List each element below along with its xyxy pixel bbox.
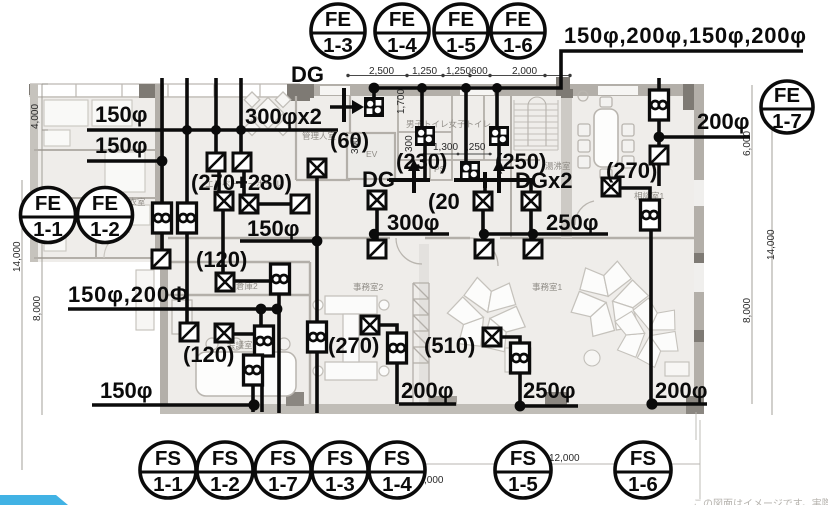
fan unit x397 <box>388 333 407 363</box>
svg-text:1-4: 1-4 <box>382 473 412 496</box>
svg-text:200φ: 200φ <box>401 378 453 403</box>
arrowhead DG left riser <box>408 159 420 171</box>
junction dot 250φ bottom x520 <box>515 401 526 412</box>
wire duct line A 150φ upper <box>87 128 338 132</box>
svg-text:FE: FE <box>389 8 415 31</box>
damper box x484 <box>475 240 493 258</box>
small dims near toilets <box>424 153 492 155</box>
bold labels <box>68 23 806 403</box>
svg-text:1-7: 1-7 <box>772 110 802 133</box>
silencer box x499 <box>489 126 509 146</box>
svg-text:1-1: 1-1 <box>33 218 63 241</box>
svg-text:150φ,200Φ: 150φ,200Φ <box>68 282 188 307</box>
tag circle FE 1-6 <box>491 4 545 58</box>
svg-text:1-6: 1-6 <box>628 473 658 496</box>
wire arrow duct feed <box>330 105 354 109</box>
dimension top row <box>348 75 570 77</box>
svg-text:200φ: 200φ <box>655 378 707 403</box>
junction dot line A x216 <box>211 125 221 135</box>
svg-text:,250: ,250 <box>466 142 486 153</box>
door arcs <box>575 201 594 225</box>
grille box x249 <box>240 195 258 213</box>
svg-text:FE: FE <box>325 8 351 31</box>
meeting room top right table <box>594 109 618 167</box>
wire 300φ leader <box>374 232 449 236</box>
svg-text:(230): (230) <box>396 149 447 174</box>
svg-text:FS: FS <box>155 447 181 470</box>
left meeting room table <box>196 352 296 396</box>
wire riser column x531 <box>529 182 533 240</box>
office1 pinwheel desks <box>436 255 697 382</box>
svg-text:150φ: 150φ <box>247 216 299 241</box>
svg-text:FE: FE <box>448 8 474 31</box>
svg-text:150φ,200φ,150φ,200φ: 150φ,200φ,150φ,200φ <box>564 23 806 48</box>
svg-text:FS: FS <box>212 447 238 470</box>
wire 200φ bottom-centre leader <box>399 402 456 406</box>
svg-text:1-5: 1-5 <box>446 34 476 57</box>
tag circle FE 1-1 <box>21 188 76 243</box>
svg-text:FE: FE <box>505 8 531 31</box>
damper box x377 <box>368 240 386 258</box>
svg-text:1-2: 1-2 <box>210 473 240 496</box>
wire riser column x485 <box>483 180 485 240</box>
junction dot 150φ200Φ x277 <box>272 304 283 315</box>
tag circle FE 1-3 <box>311 4 365 58</box>
junction dot top wire x374 <box>369 83 380 94</box>
DG cross left <box>389 168 430 193</box>
grille box x224 upper <box>215 192 233 210</box>
arrowhead DG right riser <box>493 159 505 171</box>
svg-text:FE: FE <box>774 84 800 107</box>
svg-text:FS: FS <box>384 447 410 470</box>
wing interior walls <box>34 150 160 258</box>
grille box x370 office2 <box>361 316 379 334</box>
damper box column x216 <box>207 153 225 171</box>
annotation layer <box>68 51 803 413</box>
svg-text:(510): (510) <box>424 333 475 358</box>
corridor bottom wall <box>168 238 704 404</box>
wire 200φ right leader <box>659 135 750 139</box>
svg-text:1-1: 1-1 <box>153 473 183 496</box>
silencer box x374 <box>364 97 384 117</box>
grille box x531 <box>522 192 540 210</box>
interior wall manager room <box>296 96 350 180</box>
wire riser column x262 <box>261 309 262 412</box>
blue corner banner <box>0 495 68 505</box>
junction dot line B x162 <box>157 156 168 167</box>
tag circle FS 1-3 <box>312 442 368 498</box>
svg-text:4,000: 4,000 <box>30 104 41 129</box>
damper box column x241 <box>233 153 251 171</box>
svg-text:FS: FS <box>270 447 296 470</box>
svg-text:150φ: 150φ <box>95 102 147 127</box>
wire 250φ bottom leader <box>520 404 578 408</box>
svg-text:1-6: 1-6 <box>503 34 533 57</box>
svg-text:200φ: 200φ <box>697 109 749 134</box>
fan unit column x162 <box>153 203 172 233</box>
svg-text:250φ: 250φ <box>546 210 598 235</box>
svg-text:(270): (270) <box>606 158 657 183</box>
svg-text:1-7: 1-7 <box>268 473 298 496</box>
wire riser column x253 <box>251 384 255 412</box>
svg-text:FS: FS <box>630 447 656 470</box>
fan unit x253 <box>244 355 263 385</box>
grille box x611 <box>602 178 620 196</box>
wire riser column x466 <box>464 88 468 162</box>
wire 150φ bottom leader <box>92 403 255 407</box>
dimension lines left <box>22 84 48 470</box>
junction dot 200φ bottom x652 <box>646 398 657 409</box>
junction dot line A x187 <box>182 125 192 135</box>
wire 150φ,200Φ leader <box>68 307 278 311</box>
damper box column x162 <box>152 250 170 268</box>
svg-text:,000: ,000 <box>424 475 444 486</box>
damper box x533 <box>524 240 542 258</box>
junction dot top wire x422 <box>417 83 427 93</box>
wire riser column x241 <box>241 78 244 196</box>
wire riser column x317 <box>315 177 319 413</box>
svg-text:1-2: 1-2 <box>90 218 120 241</box>
fan unit x280 <box>271 264 290 294</box>
fan unit x317 <box>308 322 327 352</box>
svg-text:FS: FS <box>510 447 536 470</box>
svg-text:150φ: 150φ <box>95 133 147 158</box>
grille box x377 <box>368 191 386 209</box>
wire branch xbox to fan meeting room <box>233 332 254 336</box>
svg-text:12,000: 12,000 <box>549 453 580 464</box>
tag circle FS 1-5 <box>495 442 551 498</box>
silencer box x425 <box>415 126 435 146</box>
office2 desks <box>313 296 389 380</box>
tag circle FS 1-1 <box>140 442 196 498</box>
junction dot 200φ right x659 <box>654 132 665 143</box>
svg-text:1,250: 1,250 <box>412 66 437 77</box>
grille box x492 office1 <box>483 328 501 346</box>
wire riser column x279 <box>277 293 281 413</box>
wire top-right label leader <box>372 51 803 88</box>
damper box x300 <box>291 195 309 213</box>
wire xbox611 to fan650 <box>620 188 650 200</box>
fan unit x262 <box>255 326 274 356</box>
svg-text:事務室1: 事務室1 <box>532 282 563 292</box>
svg-text:(120): (120) <box>183 342 234 367</box>
svg-text:この図面はイメージです。実際とは異なります: この図面はイメージです。実際とは異なります <box>693 497 828 505</box>
outer wall top <box>300 84 704 96</box>
svg-text:(120): (120) <box>196 247 247 272</box>
DG cross right (x2) <box>454 168 533 193</box>
svg-text:(60): (60) <box>330 128 369 153</box>
wire 200φ bottom-right leader <box>652 402 707 406</box>
junction dot 150φ third x317 <box>312 236 323 247</box>
svg-text:300φ: 300φ <box>387 210 439 235</box>
wire riser column x223 <box>221 210 225 273</box>
wire xbox370 to fan397 <box>379 325 397 333</box>
svg-text:150φ: 150φ <box>100 378 152 403</box>
outer wall left wing <box>30 84 38 262</box>
svg-text:FE: FE <box>92 192 118 215</box>
svg-text:1-3: 1-3 <box>323 34 353 57</box>
fan unit x659 top <box>650 90 669 120</box>
wire duct line B 150φ lower <box>87 159 163 163</box>
center wall with hatch <box>419 244 429 404</box>
svg-text:事務室2: 事務室2 <box>353 282 384 292</box>
wire riser xbox-to-diag x377 <box>375 209 379 240</box>
floor area fill <box>160 96 702 406</box>
tag circle FS 1-6 <box>615 442 671 498</box>
left wall of lower block <box>160 262 168 406</box>
svg-text:300φx2: 300φx2 <box>245 104 322 129</box>
arrowhead duct feed <box>352 100 364 114</box>
wire riser column x216 <box>216 78 219 192</box>
svg-text:2,000: 2,000 <box>512 66 537 77</box>
wire riser column x659 top <box>657 78 661 186</box>
fan unit column x187 <box>178 203 197 233</box>
svg-text:6,000: 6,000 <box>742 131 753 156</box>
tag circle FS 1-4 <box>369 442 425 498</box>
stairs <box>514 97 558 150</box>
fan unit x520 <box>511 343 530 373</box>
outer wall right <box>694 84 704 406</box>
svg-text:DG: DG <box>362 167 395 192</box>
grille box x317 <box>308 159 326 177</box>
dimension lines right <box>752 85 772 415</box>
wire fan397 down <box>395 363 399 404</box>
svg-text:8,000: 8,000 <box>742 298 753 323</box>
svg-text:14,000: 14,000 <box>766 229 777 260</box>
tag circle FS 1-2 <box>197 442 253 498</box>
junction dot line A x241 <box>236 125 246 135</box>
floor plan background <box>12 66 777 499</box>
wire xbox492 to fan520 <box>501 337 520 343</box>
svg-text:2,500: 2,500 <box>369 66 394 77</box>
svg-text:DG: DG <box>291 62 324 87</box>
wire riser column x651 long <box>649 230 653 404</box>
silencer box x470 <box>460 161 480 181</box>
EV shaft <box>347 133 395 179</box>
svg-text:1,250: 1,250 <box>446 66 471 77</box>
junction dot top wire x466 <box>461 83 471 93</box>
wing furniture <box>44 100 150 251</box>
wire xbox249 to diag300 <box>258 202 292 206</box>
svg-text:(270+280): (270+280) <box>191 170 292 195</box>
tag circle FS 1-7 <box>255 442 311 498</box>
svg-text:14,000: 14,000 <box>12 241 23 272</box>
wire riser column x422 <box>422 88 425 180</box>
top middle table <box>244 92 291 136</box>
wire riser column x374 <box>372 88 376 97</box>
junction dot 250φ x484 <box>479 229 489 239</box>
junction dot 150φ200Φ x261 <box>256 304 267 315</box>
grille box x224 meeting <box>215 324 233 342</box>
toilet walls <box>398 96 511 180</box>
svg-text:1-4: 1-4 <box>387 34 417 57</box>
tag circle FE 1-4 <box>375 4 429 58</box>
grille box x483 <box>474 192 492 210</box>
svg-text:1-5: 1-5 <box>508 473 538 496</box>
wire riser column x187 <box>185 78 189 323</box>
svg-text:DGx2: DGx2 <box>515 168 572 193</box>
damper bar on arrow duct <box>342 88 346 122</box>
wire riser column x497 <box>497 88 499 166</box>
bottom dims <box>420 412 700 499</box>
tag circle FE 1-5 <box>434 4 488 58</box>
small furniture bottom right <box>136 270 689 376</box>
junction dot bottom 150φ x254 <box>248 399 259 410</box>
junction dot top wire x497 <box>492 83 502 93</box>
wire 150φ third leader <box>240 239 317 243</box>
kitchen room right of toilets <box>511 96 540 238</box>
bottom wall <box>160 404 704 414</box>
junction dot 300φ x374 <box>369 229 379 239</box>
wire 250φ leader mid <box>484 232 608 236</box>
svg-text:FS: FS <box>327 447 353 470</box>
svg-text:(270): (270) <box>328 333 379 358</box>
junction dot 250φ x533 <box>528 229 538 239</box>
svg-text:FE: FE <box>35 192 61 215</box>
fan unit x650 <box>641 200 660 230</box>
svg-text:8,000: 8,000 <box>32 296 43 321</box>
grille box x224 storeroom <box>216 273 234 291</box>
svg-text:600: 600 <box>471 66 488 77</box>
damper box column x187 <box>180 323 198 341</box>
tag circle FE 1-7 <box>761 81 813 133</box>
tag circle FE 1-2 <box>78 188 133 243</box>
damper box x659 <box>650 146 668 164</box>
svg-text:250φ: 250φ <box>523 378 575 403</box>
wire fan520 down <box>518 373 522 406</box>
svg-text:1,700: 1,700 <box>396 89 407 114</box>
wire riser column x162 <box>160 78 164 250</box>
wire branch xbox to fan left-middle <box>234 279 272 283</box>
wing door arc <box>104 232 130 258</box>
svg-text:1-3: 1-3 <box>325 473 355 496</box>
balcony top-left <box>30 84 300 97</box>
